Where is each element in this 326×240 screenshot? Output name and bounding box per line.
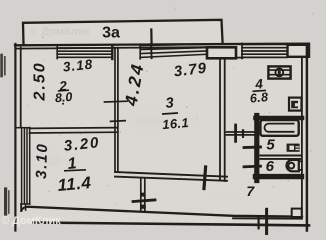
washbasin in room 5	[287, 144, 300, 152]
room 2 label	[54, 78, 73, 105]
window room 2 right jamb	[111, 47, 113, 60]
svg-text:3.18: 3.18	[62, 57, 94, 75]
svg-text:8.0: 8.0	[54, 90, 73, 105]
svg-text:3: 3	[165, 95, 174, 112]
top-right corner wall block	[288, 45, 310, 57]
wall segment pier to kitchen window	[236, 57, 243, 59]
svg-text:6: 6	[266, 158, 275, 175]
balcony 3a outline	[23, 20, 223, 44]
window room 1 (left wall)	[15, 128, 30, 205]
window room 2	[57, 47, 112, 59]
scan mark left edge top	[0, 55, 3, 76]
bottom-left corner join	[21, 207, 28, 211]
corner notch square bottom-right	[292, 209, 302, 217]
svg-text:6.8: 6.8	[249, 90, 269, 106]
svg-text:16.1: 16.1	[162, 115, 190, 132]
bottom wall outer line	[34, 223, 310, 226]
room 3 label	[162, 95, 190, 132]
wall pier between room-3 window and kitchen window	[207, 47, 236, 58]
bathtub	[260, 120, 298, 136]
svg-text:2.50: 2.50	[32, 61, 49, 101]
room 3 bottom wall	[115, 172, 227, 177]
right exterior wall outer line	[306, 45, 309, 231]
left wall lower segment	[20, 204, 22, 211]
entry door tick long	[265, 209, 268, 233]
kitchen stove	[268, 66, 290, 78]
scan mark left edge bottom	[4, 189, 7, 214]
bottom wall top line	[29, 207, 303, 217]
door tick to room 5	[244, 146, 261, 149]
wall between rooms 2-1 and room 3	[114, 48, 116, 172]
left exterior wall	[14, 44, 16, 231]
bathroom block left wall	[254, 116, 259, 181]
window room 3	[140, 44, 206, 59]
svg-text:3.10: 3.10	[33, 142, 51, 179]
room 1 label	[57, 155, 92, 195]
svg-text:11.4: 11.4	[57, 173, 92, 195]
kitchen window	[242, 43, 288, 58]
room 4 label	[249, 76, 269, 105]
door tick lower (rooms 2-3)	[111, 120, 126, 123]
door tick room 3 to hall (pair)	[204, 167, 206, 189]
entry door tick short	[258, 218, 260, 228]
toilet in room 6	[287, 160, 299, 171]
door tick room 1 to hall	[133, 200, 155, 202]
svg-text:7: 7	[246, 183, 255, 199]
svg-text:© ДомКлик: © ДомКлик	[1, 215, 61, 227]
svg-text:© ДомКлик: © ДомКлик	[30, 26, 90, 38]
wall between rooms 2 and 1	[30, 127, 118, 130]
svg-text:5: 5	[266, 136, 275, 153]
window room 3 divider	[150, 44, 153, 58]
right exterior wall inner line	[301, 57, 303, 214]
svg-text:3a: 3a	[102, 25, 120, 42]
door tick to room 6	[244, 165, 261, 168]
top wall inner line rooms 2-3	[15, 47, 206, 48]
door tick upper (rooms 2-3)	[105, 100, 128, 103]
top exterior wall outer line	[15, 44, 309, 46]
bathroom block top wall	[256, 116, 303, 121]
balcony door divider	[150, 30, 153, 45]
bathroom block bottom wall	[256, 174, 302, 179]
wall between 5 and 6	[261, 155, 302, 157]
kitchen-hall wall stub with door ticks	[227, 131, 257, 133]
kitchen sink	[289, 98, 302, 111]
wall between room 3 and kitchen/hall	[219, 59, 221, 181]
wall between room 1 and hall	[140, 179, 142, 211]
